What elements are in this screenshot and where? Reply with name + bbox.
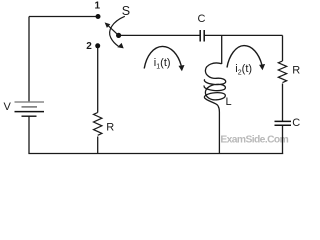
switch S throw arc arrow xyxy=(110,16,125,48)
wire bottom rail xyxy=(28,153,283,155)
wire capacitor C2 to bottom rail xyxy=(282,125,284,153)
wire top-left horizontal xyxy=(29,16,98,18)
resistor R1 zigzag xyxy=(94,113,102,136)
capacitor C1 plate right xyxy=(203,30,205,42)
battery V plate long lower xyxy=(15,111,45,113)
wire inductor bottom lead xyxy=(218,108,221,154)
battery V plate short bottom xyxy=(22,115,37,117)
node 1 dot xyxy=(96,14,101,19)
resistor R2 zigzag xyxy=(278,61,286,83)
wire top-right corner down to resistor R2 xyxy=(282,35,284,61)
battery V plate long top xyxy=(15,101,45,103)
capacitor C1 plate left xyxy=(199,30,201,42)
switch S blade arrow xyxy=(105,22,119,35)
current loop i1 arc arrow xyxy=(144,46,184,71)
node 2 dot xyxy=(95,43,100,48)
inductor L coil xyxy=(204,63,226,108)
svg-text:V: V xyxy=(4,101,12,113)
svg-text:i1(t): i1(t) xyxy=(154,57,171,70)
wire capacitor C1 to top-right corner xyxy=(204,34,282,36)
capacitor C2 plate bottom xyxy=(275,124,292,126)
svg-text:i2(t): i2(t) xyxy=(235,63,252,76)
battery V plate short upper xyxy=(22,106,38,108)
wire node2 to resistor R1 xyxy=(97,46,99,113)
wire inductor top lead xyxy=(221,35,223,64)
wire resistor R1 to bottom rail xyxy=(97,137,99,154)
svg-text:C: C xyxy=(198,13,206,25)
wire left vertical lower xyxy=(28,116,30,153)
wire pivot to capacitor C1 xyxy=(119,34,200,36)
svg-text:S: S xyxy=(122,4,130,18)
svg-text:C: C xyxy=(292,117,300,129)
wire left vertical upper xyxy=(28,17,30,103)
svg-text:1: 1 xyxy=(95,1,101,12)
svg-text:R: R xyxy=(106,122,114,134)
svg-text:R: R xyxy=(292,64,300,76)
svg-text:L: L xyxy=(226,96,232,108)
svg-text:2: 2 xyxy=(86,41,92,52)
svg-text:ExamSide.Com: ExamSide.Com xyxy=(220,134,288,145)
capacitor C2 plate top xyxy=(275,120,292,122)
current loop i2 arc arrow xyxy=(227,46,265,71)
switch S pivot dot xyxy=(116,33,121,38)
wire resistor R2 to capacitor C2 xyxy=(282,84,284,122)
